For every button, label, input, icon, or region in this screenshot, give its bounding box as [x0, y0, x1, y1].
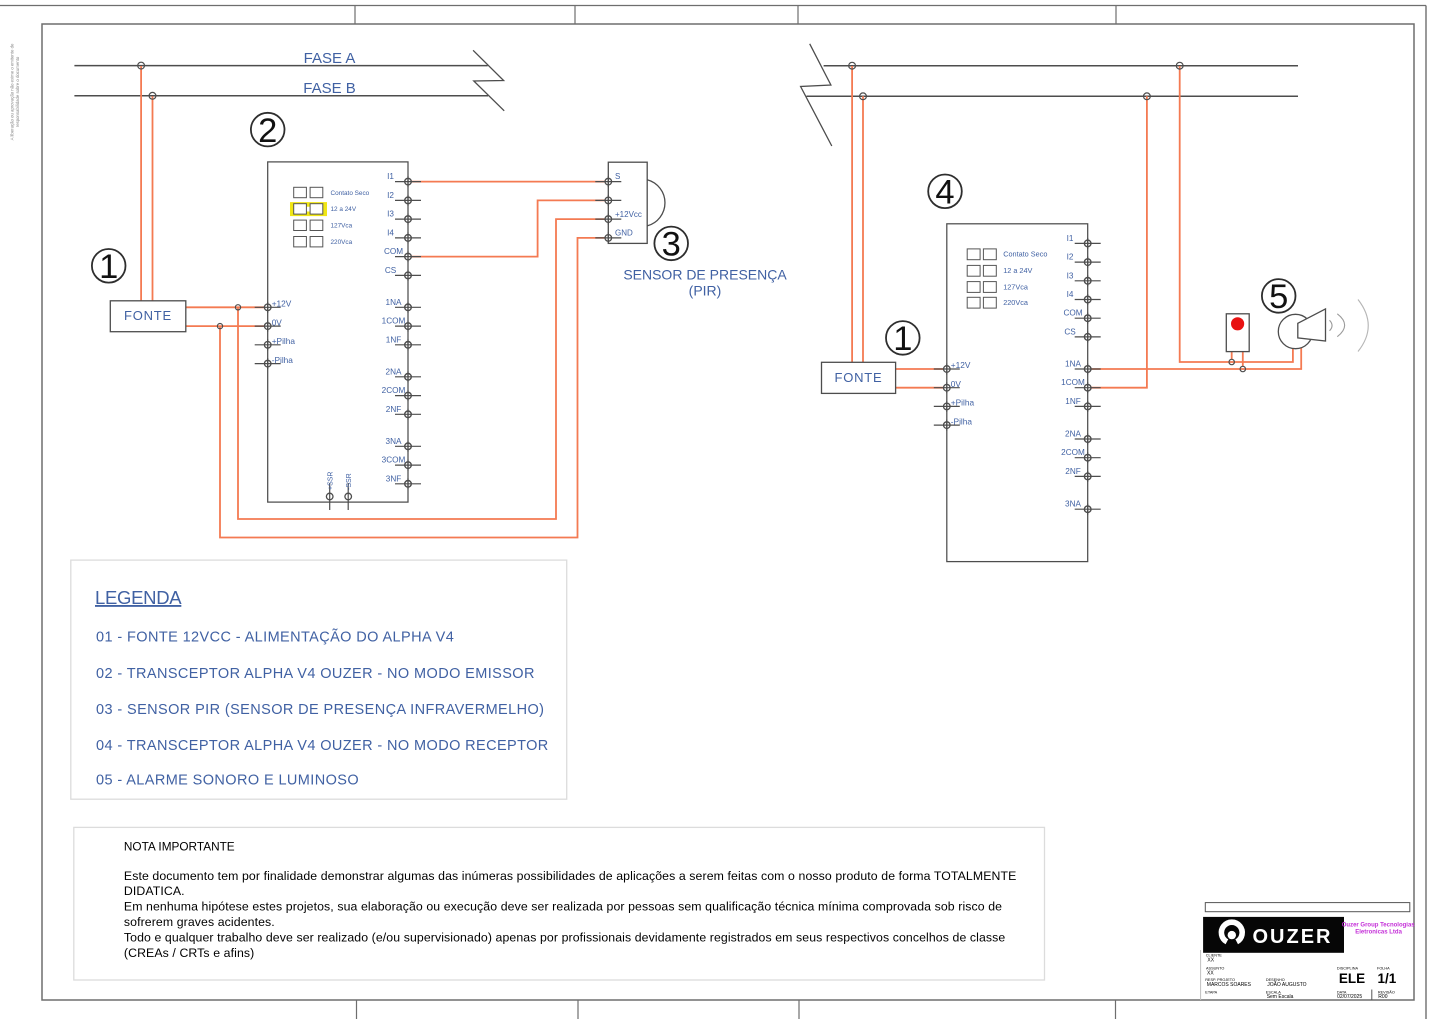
svg-text:+12V: +12V: [272, 299, 292, 309]
svg-text:3NA: 3NA: [386, 437, 402, 446]
svg-text:0V: 0V: [951, 379, 962, 389]
svg-text:2NF: 2NF: [1065, 467, 1080, 476]
svg-text:0V: 0V: [272, 317, 283, 327]
svg-text:04 - TRANSCEPTOR ALPHA V4 OUZE: 04 - TRANSCEPTOR ALPHA V4 OUZER - NO MOD…: [96, 738, 549, 754]
svg-text:220Vca: 220Vca: [331, 239, 353, 246]
svg-text:Todo e qualquer trabalho deve: Todo e qualquer trabalho deve ser realiz…: [124, 931, 1006, 945]
svg-text:ELE: ELE: [1339, 971, 1365, 986]
svg-text:FONTE: FONTE: [834, 370, 882, 385]
svg-text:01 - FONTE 12VCC - ALIMENTAÇÃO: 01 - FONTE 12VCC - ALIMENTAÇÃO DO ALPHA …: [96, 628, 454, 645]
svg-text:I3: I3: [1067, 271, 1074, 280]
svg-text:Eletronicas Ltda: Eletronicas Ltda: [1355, 929, 1402, 935]
svg-text:3NA: 3NA: [1065, 500, 1081, 509]
svg-text:+Pilha: +Pilha: [272, 336, 296, 346]
svg-text:ETAPA: ETAPA: [1205, 991, 1217, 995]
svg-text:4: 4: [935, 174, 954, 212]
svg-text:I2: I2: [1067, 253, 1074, 262]
svg-text:220Vca: 220Vca: [1003, 298, 1029, 307]
svg-text:FOLHA: FOLHA: [1377, 967, 1390, 971]
svg-text:XX: XX: [1207, 957, 1214, 963]
svg-text:5: 5: [1269, 278, 1288, 316]
svg-text:2NA: 2NA: [386, 367, 402, 376]
svg-text:SENSOR DE PRESENÇA: SENSOR DE PRESENÇA: [623, 266, 787, 282]
svg-text:1NF: 1NF: [1065, 397, 1080, 406]
svg-text:+SSR: +SSR: [328, 472, 335, 490]
svg-text:3COM: 3COM: [382, 456, 406, 465]
svg-text:+Pilha: +Pilha: [951, 398, 975, 408]
svg-text:05 - ALARME SONORO E LUMINOSO: 05 - ALARME SONORO E LUMINOSO: [96, 773, 359, 789]
svg-text:2NF: 2NF: [386, 405, 401, 414]
svg-text:COM: COM: [384, 247, 403, 256]
svg-text:2COM: 2COM: [382, 386, 406, 395]
svg-text:I4: I4: [1067, 290, 1074, 299]
svg-text:responsabilidade sobre o docum: responsabilidade sobre o documento: [15, 56, 20, 127]
svg-text:CS: CS: [1064, 327, 1076, 336]
svg-text:Sem Escala: Sem Escala: [1267, 994, 1294, 1000]
svg-text:I1: I1: [387, 172, 394, 181]
svg-text:1/1: 1/1: [1378, 971, 1397, 986]
svg-text:Contato Seco: Contato Seco: [331, 190, 370, 197]
svg-text:JOÃO AUGUSTO: JOÃO AUGUSTO: [1267, 981, 1306, 988]
svg-text:2COM: 2COM: [1061, 448, 1085, 457]
svg-text:S: S: [615, 172, 620, 181]
svg-text:-SSR: -SSR: [346, 473, 353, 490]
svg-text:FASE B: FASE B: [303, 80, 356, 97]
svg-text:R00: R00: [1378, 994, 1387, 1000]
svg-text:FASE A: FASE A: [304, 50, 356, 67]
svg-text:NOTA IMPORTANTE: NOTA IMPORTANTE: [124, 839, 235, 853]
svg-text:DISCIPLINA: DISCIPLINA: [1337, 967, 1359, 971]
svg-text:I1: I1: [1067, 234, 1074, 243]
svg-text:COM: COM: [1063, 309, 1082, 318]
svg-text:1: 1: [99, 248, 118, 286]
svg-text:2NA: 2NA: [1065, 430, 1081, 439]
svg-text:2: 2: [258, 112, 277, 150]
svg-text:Ouzer Group Tecnologias: Ouzer Group Tecnologias: [1342, 922, 1416, 928]
svg-text:Este documento tem por finalid: Este documento tem por finalidade demons…: [124, 869, 1017, 883]
svg-text:1NA: 1NA: [386, 298, 402, 307]
svg-text:I4: I4: [387, 228, 394, 237]
svg-text:I2: I2: [387, 191, 394, 200]
svg-text:A liberação ou aprovação não e: A liberação ou aprovação não exime o emi…: [10, 43, 15, 140]
svg-text:02/07/2025: 02/07/2025: [1337, 994, 1362, 1000]
svg-text:GND: GND: [615, 229, 633, 238]
svg-text:1COM: 1COM: [382, 317, 406, 326]
svg-text:12 a 24V: 12 a 24V: [1003, 266, 1032, 275]
svg-text:DIDATICA.: DIDATICA.: [124, 884, 185, 898]
svg-text:127Vca: 127Vca: [331, 223, 353, 230]
svg-text:03 - SENSOR PIR (SENSOR DE PRE: 03 - SENSOR PIR (SENSOR DE PRESENÇA INFR…: [96, 702, 544, 718]
svg-text:MARCOS SOARES: MARCOS SOARES: [1207, 982, 1252, 988]
svg-text:XX: XX: [1207, 971, 1214, 977]
svg-text:LEGENDA: LEGENDA: [95, 587, 182, 608]
svg-text:(CREAs / CRTs e afins): (CREAs / CRTs e afins): [124, 946, 254, 960]
svg-text:3: 3: [662, 226, 681, 264]
svg-text:1NA: 1NA: [1065, 360, 1081, 369]
svg-text:Contato Seco: Contato Seco: [1003, 250, 1047, 259]
svg-text:CS: CS: [385, 266, 397, 275]
svg-text:3NF: 3NF: [386, 474, 401, 483]
svg-text:02 - TRANSCEPTOR ALPHA V4 OUZE: 02 - TRANSCEPTOR ALPHA V4 OUZER - NO MOD…: [96, 666, 535, 682]
svg-text:12 a 24V: 12 a 24V: [331, 206, 357, 213]
svg-text:1: 1: [893, 320, 912, 358]
svg-text:+12V: +12V: [951, 360, 971, 370]
svg-text:1COM: 1COM: [1061, 378, 1085, 387]
svg-text:127Vca: 127Vca: [1003, 282, 1029, 291]
svg-text:OUZER: OUZER: [1253, 926, 1333, 948]
svg-text:sofrerem graves acidentes.: sofrerem graves acidentes.: [124, 915, 275, 929]
svg-text:Em nenhuma hipótese estes proj: Em nenhuma hipótese estes projetos, sua …: [124, 900, 1002, 914]
svg-text:I3: I3: [387, 210, 394, 219]
svg-text:-Pilha: -Pilha: [951, 416, 973, 426]
svg-text:1NF: 1NF: [386, 335, 401, 344]
svg-text:+12Vcc: +12Vcc: [615, 210, 642, 219]
svg-text:(PIR): (PIR): [689, 283, 722, 299]
svg-text:FONTE: FONTE: [124, 308, 172, 323]
svg-text:-Pilha: -Pilha: [272, 355, 294, 365]
